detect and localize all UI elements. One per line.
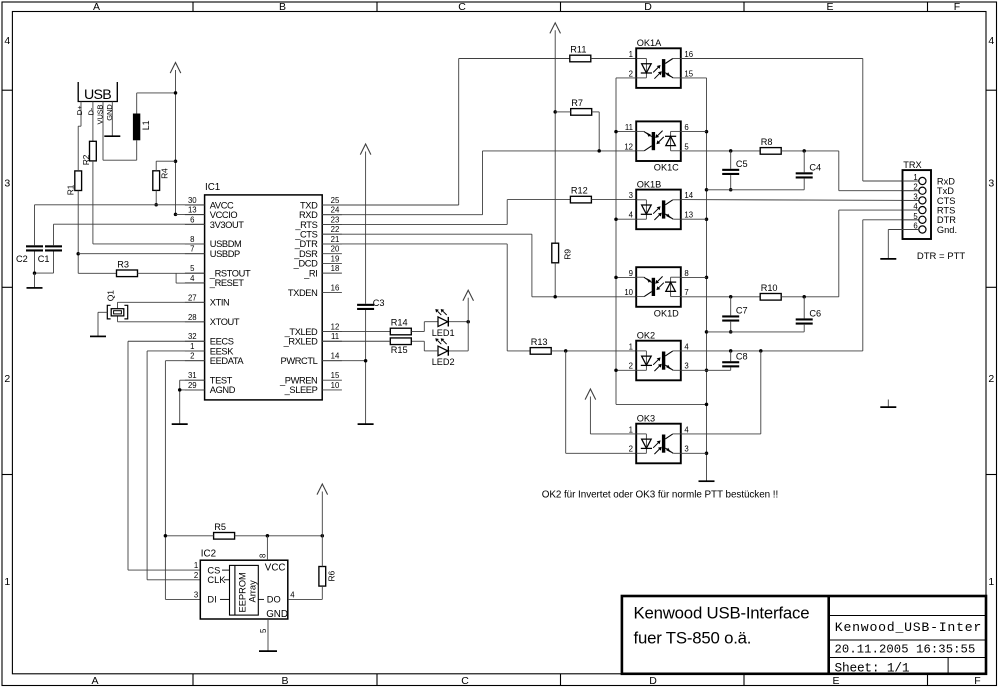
frame column labels top xyxy=(93,1,960,13)
resistor R8 xyxy=(760,137,781,154)
svg-text:11: 11 xyxy=(625,123,633,132)
svg-text:TXD: TXD xyxy=(300,200,318,210)
wire EESK to IC2 CLK xyxy=(147,351,205,580)
junction C7 top xyxy=(729,295,733,299)
svg-text:13: 13 xyxy=(684,211,693,220)
resistor R14 xyxy=(390,317,411,335)
svg-text:_TXLED: _TXLED xyxy=(284,327,318,337)
junction R1/USBDP xyxy=(76,252,80,256)
svg-text:23: 23 xyxy=(331,215,340,224)
junction C4 top xyxy=(802,149,806,153)
svg-text:PWRCTL: PWRCTL xyxy=(281,356,318,366)
resistor R9 xyxy=(552,243,573,263)
LED LED1 xyxy=(432,309,455,338)
OK1B pin numbers 3 4 14 13 xyxy=(629,191,694,219)
svg-text:3: 3 xyxy=(988,178,994,190)
optocoupler OK2 xyxy=(636,330,681,380)
LED LED2 xyxy=(432,338,455,367)
wire OK1D pin9 stub xyxy=(616,276,636,278)
IC2 pin numbers xyxy=(194,554,295,633)
svg-text:_RXLED: _RXLED xyxy=(283,337,318,347)
wire AVCC xyxy=(35,205,205,246)
wire OK1D pin7 to R10 xyxy=(681,296,760,298)
USB pin D+ xyxy=(75,102,84,127)
junction R13 output xyxy=(564,349,568,353)
svg-text:4: 4 xyxy=(4,35,10,47)
svg-text:1: 1 xyxy=(4,576,10,588)
wire cap bottoms to rail xyxy=(707,189,805,191)
wire _RTS to R12 xyxy=(322,200,570,225)
svg-text:R5: R5 xyxy=(214,522,226,532)
resistor R4 xyxy=(153,168,170,190)
svg-text:4: 4 xyxy=(684,425,689,434)
svg-text:CS: CS xyxy=(207,565,220,575)
svg-text:R6: R6 xyxy=(327,571,337,582)
resistor R6 xyxy=(319,567,337,587)
wire OK2 pin2 stub xyxy=(616,369,636,371)
svg-text:DTR = PTT: DTR = PTT xyxy=(917,251,965,262)
ground symbol below Q1 xyxy=(90,335,106,337)
junction PWRCTL xyxy=(364,359,368,363)
svg-text:1: 1 xyxy=(913,173,917,182)
resistor R1 xyxy=(66,171,82,195)
capacitor C4 xyxy=(796,151,821,190)
frame row labels left xyxy=(4,35,10,588)
svg-text:4: 4 xyxy=(684,342,689,351)
wire R5 to VCC pin8 and R6 xyxy=(235,535,323,537)
USB connector xyxy=(78,82,117,103)
svg-text:XTOUT: XTOUT xyxy=(210,317,240,327)
title text xyxy=(634,603,810,647)
svg-text:R4: R4 xyxy=(160,168,170,179)
svg-text:RTS: RTS xyxy=(937,206,955,216)
svg-text:VUSB: VUSB xyxy=(96,104,105,124)
svg-text:C3: C3 xyxy=(373,298,385,308)
svg-text:24: 24 xyxy=(331,206,340,215)
svg-text:22: 22 xyxy=(331,225,340,234)
svg-text:D+: D+ xyxy=(75,105,84,115)
wire R9 to CTS wire xyxy=(554,263,556,297)
svg-text:C6: C6 xyxy=(809,309,821,319)
wire R2 to USBDM xyxy=(93,161,205,244)
wire VCCIO xyxy=(176,213,205,215)
svg-text:Gnd.: Gnd. xyxy=(937,225,957,235)
svg-text:OK1B: OK1B xyxy=(637,179,662,189)
svg-text:USBDP: USBDP xyxy=(210,249,240,259)
svg-text:R14: R14 xyxy=(391,317,408,327)
svg-text:R11: R11 xyxy=(570,45,586,55)
wire TEST AGND to ground xyxy=(180,380,205,423)
VCC arrow at OK3 xyxy=(585,389,596,400)
IC1 right pin stubs and labels xyxy=(279,196,342,395)
svg-text:EEDATA: EEDATA xyxy=(210,356,245,366)
wire D+ to R1 xyxy=(77,126,79,171)
svg-text:EESK: EESK xyxy=(210,346,234,356)
svg-text:6: 6 xyxy=(684,123,688,132)
capacitor C5 xyxy=(722,151,747,190)
optocoupler OK1C xyxy=(636,121,681,172)
junction C7 bottom xyxy=(729,330,733,334)
svg-text:_RI: _RI xyxy=(303,268,317,278)
svg-text:DO: DO xyxy=(267,595,281,605)
resistor R13 xyxy=(530,337,551,354)
svg-text:OK1D: OK1D xyxy=(654,308,679,318)
svg-text:C8: C8 xyxy=(736,351,748,361)
svg-text:2: 2 xyxy=(190,352,194,361)
svg-text:2: 2 xyxy=(629,69,633,78)
junction R5 left xyxy=(164,534,168,538)
wire C1 top to 3V3OUT xyxy=(54,224,205,245)
wire XTIN to crystal xyxy=(118,302,205,308)
svg-text:A: A xyxy=(93,1,100,13)
svg-text:3: 3 xyxy=(629,191,633,200)
svg-text:_RESET: _RESET xyxy=(209,278,244,288)
svg-text:F: F xyxy=(974,675,980,687)
svg-text:R1: R1 xyxy=(66,184,76,195)
capacitor C1 xyxy=(38,245,62,264)
junction L1/VCC xyxy=(174,91,178,95)
wire R12 to OK1B pin3 xyxy=(591,199,636,201)
svg-text:20: 20 xyxy=(331,245,340,254)
svg-text:11: 11 xyxy=(331,332,339,341)
svg-text:RxD: RxD xyxy=(937,176,955,186)
capacitor C3 xyxy=(357,298,384,310)
wire branch to _RESET xyxy=(176,273,205,283)
svg-text:4: 4 xyxy=(629,211,634,220)
svg-text:USB: USB xyxy=(84,87,111,103)
svg-text:4: 4 xyxy=(913,202,918,211)
svg-text:28: 28 xyxy=(188,313,197,322)
optocoupler OK1A xyxy=(636,38,681,88)
wire OK2 pin3 to C8 bottom xyxy=(681,369,731,371)
svg-text:XTIN: XTIN xyxy=(210,298,230,308)
svg-text:9: 9 xyxy=(629,269,633,278)
wire crystal to ground xyxy=(98,312,107,336)
svg-text:2: 2 xyxy=(4,373,10,385)
svg-text:18: 18 xyxy=(331,264,340,273)
svg-text:OK1C: OK1C xyxy=(654,163,679,173)
wire VCC down to LED2 xyxy=(449,322,468,351)
junction OK2/OK3 collector xyxy=(759,349,763,353)
svg-text:13: 13 xyxy=(188,206,197,215)
svg-text:16: 16 xyxy=(684,50,693,59)
VCC arrow above C3 xyxy=(360,144,371,155)
wire R7 to OK1C pin12 wire xyxy=(592,112,600,151)
svg-text:Kenwood_USB-Inter: Kenwood_USB-Inter xyxy=(835,620,982,635)
svg-text:GND: GND xyxy=(105,104,114,121)
svg-text:D: D xyxy=(644,1,652,13)
wire VUSB to L1 xyxy=(103,140,137,160)
right emitter rail wire xyxy=(681,78,707,481)
svg-text:3: 3 xyxy=(913,192,917,201)
svg-text:15: 15 xyxy=(684,69,693,78)
svg-text:Q1: Q1 xyxy=(105,290,115,301)
junction R4/AVCC xyxy=(154,203,158,207)
USB pin VUSB xyxy=(96,102,105,161)
wire LED2 to R15 xyxy=(411,341,438,351)
svg-text:3: 3 xyxy=(194,590,198,599)
svg-text:GND: GND xyxy=(266,609,288,620)
svg-text:RXD: RXD xyxy=(299,210,318,220)
optocoupler OK1D xyxy=(636,267,681,318)
wire RXD to OK1C pin12 xyxy=(322,151,636,215)
junction R4/VCC xyxy=(174,159,178,163)
ground symbol below USB GND pin xyxy=(104,135,120,137)
wire OK1C pin5 to R8 xyxy=(681,150,760,152)
svg-text:12: 12 xyxy=(331,323,340,332)
svg-text:30: 30 xyxy=(188,196,197,205)
svg-text:D: D xyxy=(649,675,657,687)
wire IC2 GND pin to ground xyxy=(267,619,269,651)
svg-text:4: 4 xyxy=(290,590,295,599)
svg-text:25: 25 xyxy=(331,196,340,205)
svg-text:20.11.2005 16:35:55: 20.11.2005 16:35:55 xyxy=(835,642,976,656)
svg-text:R10: R10 xyxy=(761,283,778,293)
wire IC2 VCC pin stub xyxy=(266,536,268,560)
svg-text:DTR: DTR xyxy=(937,215,956,225)
svg-text:1: 1 xyxy=(190,342,194,351)
junction VCC pin8 xyxy=(266,534,270,538)
wire OK1C pin6 stub xyxy=(681,131,707,133)
wire R1 to R3 xyxy=(78,272,116,274)
svg-text:5: 5 xyxy=(190,264,195,273)
wire C1 C2 bottoms xyxy=(35,252,54,274)
svg-text:8: 8 xyxy=(190,235,194,244)
frame row labels right xyxy=(988,35,994,588)
svg-text:D-: D- xyxy=(87,107,96,115)
svg-text:F: F xyxy=(954,1,960,13)
optocoupler OK3 xyxy=(636,413,681,463)
svg-text:E: E xyxy=(832,675,839,687)
svg-text:5: 5 xyxy=(913,212,918,221)
wire _TXLED to R14 xyxy=(322,331,390,333)
svg-text:21: 21 xyxy=(331,235,340,244)
resistor R2 xyxy=(81,141,96,165)
wire TXD to R11 xyxy=(322,59,570,206)
wire OK2 pin4 to TRX DTR xyxy=(681,220,919,351)
wire OK3 pin3 stub xyxy=(681,452,707,454)
wire EEDATA to IC2 DI xyxy=(165,361,204,600)
svg-text:R2: R2 xyxy=(81,154,91,165)
svg-text:Kenwood USB-Interface: Kenwood USB-Interface xyxy=(634,603,810,622)
ground symbol below TRX xyxy=(880,258,896,260)
svg-text:OK3: OK3 xyxy=(637,413,655,423)
svg-text:TxD: TxD xyxy=(937,186,954,196)
svg-text:_RTS: _RTS xyxy=(294,220,317,230)
capacitor C8 xyxy=(722,351,747,370)
wire R4 bottom to AVCC xyxy=(155,190,157,204)
svg-text:_DTR: _DTR xyxy=(294,239,318,249)
OK3 pin numbers 1 2 4 3 xyxy=(629,425,690,453)
connector TRX xyxy=(903,160,932,239)
junction C5 top xyxy=(729,149,733,153)
svg-text:12: 12 xyxy=(624,142,633,151)
wire XTOUT to crystal xyxy=(118,316,205,322)
wire LED1 to VCC xyxy=(449,321,468,323)
resistor R15 xyxy=(390,338,411,355)
wire cap bottoms to rail 2 xyxy=(707,331,805,333)
svg-text:29: 29 xyxy=(188,381,197,390)
OK1C pin numbers 11 12 6 5 xyxy=(624,123,689,151)
svg-text:1: 1 xyxy=(629,425,633,434)
crystal Q1 xyxy=(105,290,127,319)
svg-text:7: 7 xyxy=(684,288,688,297)
svg-text:2: 2 xyxy=(194,571,198,580)
svg-text:1: 1 xyxy=(629,50,633,59)
wire OK1D pin8 stub xyxy=(681,276,707,278)
svg-text:_CTS: _CTS xyxy=(294,229,317,239)
svg-text:_DCD: _DCD xyxy=(293,259,318,269)
svg-text:R15: R15 xyxy=(391,345,408,355)
svg-text:A: A xyxy=(91,675,98,687)
svg-text:fuer TS-850 o.ä.: fuer TS-850 o.ä. xyxy=(634,629,752,648)
svg-text:2: 2 xyxy=(988,373,994,385)
svg-text:DI: DI xyxy=(207,595,216,605)
junction C6 top xyxy=(802,295,806,299)
svg-text:OK2 für Invertet oder OK3 für: OK2 für Invertet oder OK3 für normle PTT… xyxy=(542,490,778,501)
IC1 left pin stubs and labels xyxy=(185,196,251,395)
svg-text:3: 3 xyxy=(4,178,10,190)
wire EEDATA to R5 xyxy=(165,535,213,537)
wire OK3 pin4 to junction xyxy=(681,351,761,434)
VCC arrow above R6 xyxy=(317,484,328,495)
wire R1 to USBDP and R3 xyxy=(77,191,79,274)
junction rail joints right xyxy=(705,130,709,455)
junction C5 bottom xyxy=(729,188,733,192)
wire to ground below C2 xyxy=(34,273,36,287)
OK1D pin numbers 9 10 8 7 xyxy=(624,269,688,297)
USB pin D- xyxy=(87,102,96,142)
svg-text:15: 15 xyxy=(331,371,340,380)
svg-text:R8: R8 xyxy=(761,137,773,147)
svg-text:_SLEEP: _SLEEP xyxy=(284,385,318,395)
wire VCC to C3 xyxy=(365,152,367,304)
frame column labels bottom xyxy=(91,675,980,687)
svg-text:LED2: LED2 xyxy=(432,357,455,367)
svg-text:USBDM: USBDM xyxy=(210,239,242,249)
wire R3 to _RSTOUT xyxy=(138,272,205,274)
svg-text:3: 3 xyxy=(684,362,688,371)
junction R7/VCC xyxy=(553,110,557,114)
VCC rail centre xyxy=(554,30,556,243)
svg-text:14: 14 xyxy=(331,352,340,361)
svg-text:1: 1 xyxy=(194,561,198,570)
svg-text:VCC: VCC xyxy=(265,563,286,574)
svg-text:19: 19 xyxy=(331,254,340,263)
resistor R7 xyxy=(571,98,592,115)
svg-text:Sheet: 1/1: Sheet: 1/1 xyxy=(835,660,910,675)
svg-text:C7: C7 xyxy=(736,306,748,316)
capacitor C6 xyxy=(796,297,821,332)
svg-text:TXDEN: TXDEN xyxy=(288,288,318,298)
svg-text:31: 31 xyxy=(188,371,197,380)
resistor R10 xyxy=(760,283,781,300)
wire R6 to IC2 DO xyxy=(288,536,322,600)
svg-text:R9: R9 xyxy=(563,249,573,260)
capacitor C2 xyxy=(16,245,43,264)
svg-text:CLK: CLK xyxy=(207,575,226,585)
svg-text:2: 2 xyxy=(629,445,633,454)
resistor R12 xyxy=(570,186,591,203)
svg-text:TEST: TEST xyxy=(210,375,233,385)
svg-text:3: 3 xyxy=(684,445,688,454)
svg-text:L1: L1 xyxy=(141,120,151,130)
OK1A pin numbers 1 2 16 15 xyxy=(629,50,694,78)
svg-text:C2: C2 xyxy=(16,254,28,264)
wire USBDP xyxy=(78,253,204,255)
wire VCC to OK3 pin1 xyxy=(590,397,636,434)
wire _CTS to OK1D pin10 xyxy=(322,234,636,297)
optocoupler OK1B xyxy=(636,179,681,229)
wire EECS to IC2 CS xyxy=(128,341,205,570)
junction R9 bottom xyxy=(553,295,557,299)
svg-text:IC1: IC1 xyxy=(205,182,220,193)
svg-text:EEPROM: EEPROM xyxy=(238,572,248,612)
svg-text:C5: C5 xyxy=(736,159,748,169)
wire _RXLED to R15 xyxy=(322,340,390,342)
capacitor C7 xyxy=(722,297,747,332)
title block fields xyxy=(835,620,983,676)
inductor L1 xyxy=(133,114,151,141)
svg-text:8: 8 xyxy=(684,269,688,278)
IC IC2 93C46 EEPROM box xyxy=(200,549,288,621)
svg-text:C1: C1 xyxy=(38,254,50,264)
svg-text:B: B xyxy=(281,675,288,687)
ground symbol below PWRCTL xyxy=(358,423,374,425)
wire TRX Gnd to ground xyxy=(888,230,919,259)
resistor R5 xyxy=(214,522,235,539)
svg-text:7: 7 xyxy=(190,245,194,254)
svg-text:IC2: IC2 xyxy=(201,549,216,560)
svg-text:32: 32 xyxy=(188,332,197,341)
wire R4 top to VCC rail xyxy=(156,161,175,171)
junction LED1/VCC xyxy=(466,320,470,324)
title block xyxy=(622,596,986,674)
svg-text:10: 10 xyxy=(331,381,340,390)
svg-text:AVCC: AVCC xyxy=(210,200,234,210)
ground symbol below right rail xyxy=(699,480,715,482)
junction R7/RXD wire xyxy=(597,149,601,153)
svg-text:5: 5 xyxy=(684,142,689,151)
VCC arrow top left xyxy=(170,63,181,74)
svg-text:OK2: OK2 xyxy=(637,330,655,340)
note text OK2 OK3 xyxy=(542,490,778,501)
svg-text:10: 10 xyxy=(624,288,633,297)
svg-text:2: 2 xyxy=(913,183,917,192)
svg-text:AGND: AGND xyxy=(210,385,236,395)
svg-text:R7: R7 xyxy=(571,98,583,108)
VCC arrow top centre xyxy=(550,23,561,34)
svg-text:C: C xyxy=(458,1,466,13)
svg-text:_DSR: _DSR xyxy=(293,249,318,259)
junction R6 top xyxy=(321,534,325,538)
wire R11 to OK1A pin1 xyxy=(591,58,636,60)
svg-text:14: 14 xyxy=(684,191,693,200)
svg-text:LED1: LED1 xyxy=(432,328,455,338)
wire _DTR to R13 xyxy=(322,244,530,351)
svg-text:OK1A: OK1A xyxy=(637,38,662,48)
VCC arrow above LEDs xyxy=(463,290,474,301)
svg-text:1: 1 xyxy=(988,576,994,588)
junction C8 top xyxy=(729,349,733,353)
wire R13 net to OK3 pin2 xyxy=(566,351,637,453)
svg-text:_PWREN: _PWREN xyxy=(279,375,317,385)
junction C2 bottom xyxy=(33,271,37,275)
wire R14 to LED1 xyxy=(411,322,438,332)
resistor R11 xyxy=(570,45,591,62)
svg-text:R3: R3 xyxy=(117,259,129,269)
svg-text:6: 6 xyxy=(190,215,194,224)
